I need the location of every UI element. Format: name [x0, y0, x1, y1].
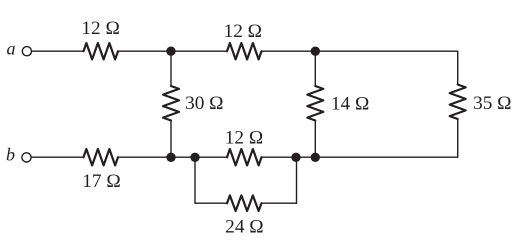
wire right edge lower — [457, 119, 459, 157]
resistor 30 ohm — [163, 86, 179, 121]
resistor 12 ohm top-left — [84, 43, 119, 59]
svg-text:24 Ω: 24 Ω — [225, 216, 263, 237]
wire bottom rail between junctions — [296, 156, 315, 158]
resistor 14 ohm — [307, 86, 323, 121]
resistor 12 ohm top-middle — [227, 43, 262, 59]
wire right edge upper — [457, 51, 459, 84]
svg-text:b: b — [6, 145, 15, 165]
wire b lead — [32, 156, 84, 158]
wire a lead — [32, 50, 83, 52]
wire 14 ohm branch lower — [314, 121, 316, 158]
wire 30 ohm branch upper — [170, 51, 172, 86]
svg-text:30 Ω: 30 Ω — [185, 93, 223, 114]
svg-text:35 Ω: 35 Ω — [473, 93, 511, 114]
node junction top-right — [311, 47, 320, 56]
node junction top-left — [166, 47, 175, 56]
terminal b — [22, 153, 31, 162]
wire 24 ohm loop bottom right — [262, 202, 297, 204]
resistor 35 ohm — [450, 85, 466, 120]
wire 24 ohm loop bottom left — [195, 202, 227, 204]
node junction bottom 24ohm-left — [190, 153, 199, 162]
resistor 12 ohm bottom — [227, 149, 262, 165]
svg-text:a: a — [7, 39, 16, 59]
wire 24 ohm loop left vertical — [194, 157, 196, 203]
wire bottom rail right — [315, 156, 457, 158]
node junction bottom 24ohm-right — [291, 153, 300, 162]
wire bottom rail left of resistor — [195, 156, 227, 158]
svg-text:14 Ω: 14 Ω — [331, 94, 369, 115]
wire bottom rail to resistor — [262, 156, 297, 158]
wire top rail left-middle — [118, 50, 171, 52]
svg-text:17 Ω: 17 Ω — [82, 171, 120, 192]
wire bottom rail between left junctions — [171, 156, 195, 158]
terminal a — [22, 47, 31, 56]
wire top rail right — [262, 50, 458, 52]
wire top rail middle — [171, 50, 227, 52]
wire 24 ohm loop right vertical — [296, 157, 298, 203]
node junction bottom 14ohm — [311, 153, 320, 162]
svg-text:12 Ω: 12 Ω — [225, 128, 263, 149]
node junction bottom 30ohm — [166, 153, 175, 162]
resistor 17 ohm — [84, 149, 119, 165]
wire 14 ohm branch upper — [314, 51, 316, 86]
svg-text:12 Ω: 12 Ω — [224, 21, 262, 42]
svg-text:12 Ω: 12 Ω — [81, 18, 119, 39]
wire 30 ohm branch lower — [170, 121, 172, 158]
resistor 24 ohm — [227, 195, 262, 211]
wire bottom rail left — [118, 156, 171, 158]
